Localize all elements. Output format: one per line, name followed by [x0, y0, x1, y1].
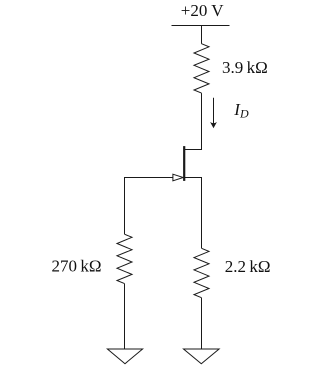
wire gate: [125, 178, 173, 235]
wire supply to RD: [201, 26, 203, 44]
transistor Q1 gate arrow: [173, 174, 183, 181]
svg-text:+20 V: +20 V: [181, 1, 225, 20]
supply rail +20 V bar: [172, 25, 230, 27]
wire RS to ground: [201, 298, 203, 349]
transistor Q1 channel bar: [183, 146, 185, 181]
wire RD to drain: [184, 93, 201, 149]
resistor RD 3.9k zigzag: [194, 44, 209, 93]
svg-text:3.9 kΩ: 3.9 kΩ: [222, 58, 268, 77]
resistor RG 270k zigzag: [117, 234, 132, 283]
current arrow ID: [210, 98, 217, 128]
svg-text:2.2 kΩ: 2.2 kΩ: [225, 257, 271, 276]
ground left: [107, 349, 142, 364]
transistor Q1 source lead: [184, 178, 201, 249]
wire RG to ground: [124, 284, 126, 349]
resistor RS 2.2k zigzag: [194, 248, 209, 297]
ground right: [184, 349, 220, 364]
svg-text:270 kΩ: 270 kΩ: [52, 257, 102, 276]
